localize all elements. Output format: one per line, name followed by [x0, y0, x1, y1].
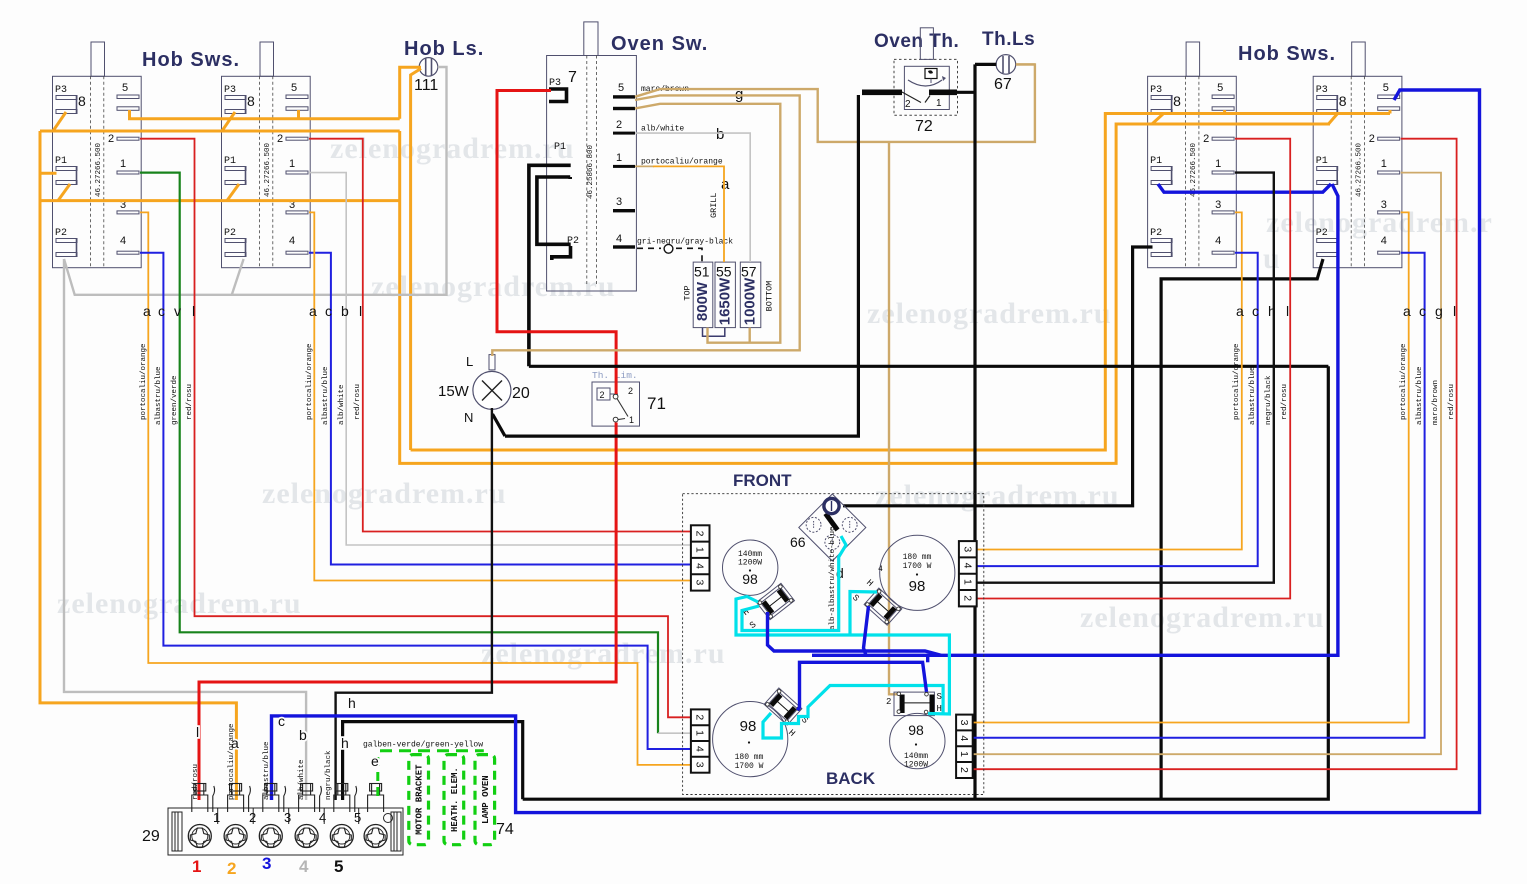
- wire tan lamp67 right link: [1016, 63, 1035, 65]
- wire black h2 terminal5 to neutral bus: [343, 722, 523, 800]
- svg-text:red/rosu: red/rosu: [1448, 384, 1456, 420]
- oven switch pin 3: [613, 196, 635, 212]
- wire blue pin4 block2: [309, 253, 692, 565]
- letters under block 3: [1236, 303, 1289, 319]
- svg-text:b: b: [299, 727, 307, 743]
- svg-text:Hob Sws.: Hob Sws.: [1238, 43, 1336, 65]
- wire black lamp20 N down to h: [336, 408, 492, 800]
- svg-text:2: 2: [958, 767, 970, 773]
- wire green pin1 block1: [140, 173, 658, 734]
- terminal strip right-top: [959, 541, 977, 606]
- svg-text:1200W: 1200W: [904, 761, 928, 770]
- svg-text:2: 2: [886, 697, 891, 707]
- wire red pin2 block2 to top strip: [309, 139, 692, 532]
- hob switch block 4: [1313, 42, 1402, 268]
- svg-text:4: 4: [616, 233, 622, 245]
- svg-text:red/rosu: red/rosu: [354, 384, 362, 420]
- svg-text:portocaliu/orange: portocaliu/orange: [306, 343, 314, 420]
- letters under block 4: [1403, 303, 1456, 319]
- svg-text:zelenogradrem.ru: zelenogradrem.ru: [330, 132, 575, 165]
- svg-text:S: S: [937, 692, 942, 702]
- wire red oven P3 through limiter to terminal 1: [497, 91, 616, 395]
- svg-text:1: 1: [616, 152, 622, 164]
- svg-text:57: 57: [741, 264, 757, 280]
- svg-text:7: 7: [568, 69, 577, 86]
- svg-text:maro/brown: maro/brown: [1432, 380, 1440, 425]
- svg-text:a: a: [1403, 303, 1411, 319]
- wire red pin2 block3 to strip: [977, 139, 1290, 599]
- green dashed link over boxes: [380, 749, 484, 752]
- svg-text:Oven Th.: Oven Th.: [874, 31, 959, 52]
- svg-text:3: 3: [694, 762, 706, 768]
- svg-text:1: 1: [694, 547, 706, 553]
- wire gray oven pin2 b to box 57: [635, 133, 750, 262]
- svg-text:GRILL: GRILL: [709, 192, 719, 218]
- svg-text:180 mm: 180 mm: [735, 753, 764, 762]
- svg-text:1700 W: 1700 W: [903, 562, 932, 571]
- svg-text:c: c: [278, 713, 285, 729]
- wire gray pin1 block2: [309, 173, 692, 545]
- power box 57 1000W BOTTOM: [740, 262, 774, 328]
- svg-text:albastru/blue: albastru/blue: [263, 741, 271, 800]
- wire orange lamp111 diagonal: [411, 69, 421, 451]
- svg-text:4: 4: [694, 746, 706, 752]
- svg-text:green/verde: green/verde: [171, 375, 179, 425]
- svg-text:1700 W: 1700 W: [735, 762, 764, 771]
- svg-text:2: 2: [628, 386, 633, 396]
- wire tan oven pin5 bottom to element boxes: [635, 104, 780, 343]
- wire blue pin4 block4 to strip: [973, 253, 1425, 738]
- oven thermostat 72: [894, 28, 958, 135]
- hob switch block 2: [222, 42, 311, 268]
- power box 55 1650W: [715, 262, 735, 328]
- wire tan element box57 drop: [749, 328, 751, 343]
- svg-text:L: L: [466, 354, 473, 369]
- svg-text:72: 72: [915, 118, 933, 135]
- svg-text:180 mm: 180 mm: [903, 553, 932, 562]
- svg-text:800W: 800W: [694, 281, 711, 321]
- svg-text:20: 20: [512, 385, 530, 402]
- svg-text:l: l: [196, 724, 199, 740]
- wire tan oven pin5 top to lamp 67 circuit: [635, 64, 1035, 141]
- wire blue pin4 block1: [140, 253, 692, 749]
- svg-text:alb/white: alb/white: [298, 759, 306, 800]
- wire orange P3 block4 diagonal: [1329, 113, 1339, 124]
- wire orange lamp111 upper run to right bus1: [411, 114, 1390, 451]
- svg-text:3: 3: [616, 196, 622, 208]
- wire black oven P1 bus to right: [529, 365, 1329, 368]
- wire black pin1 stub: [957, 91, 975, 94]
- svg-text:l: l: [1453, 303, 1456, 319]
- wire green-yellow e dashes: [376, 757, 379, 800]
- wire blue junction stub: [926, 655, 929, 662]
- wire gray lamp111 to P2 blocks 1-2: [64, 67, 447, 295]
- wire cyan inner TL to ignition: [742, 536, 846, 631]
- oven switch block 7 outline: [547, 22, 637, 291]
- wire orange lamp111 left upper: [400, 67, 421, 119]
- wire blue TR-S down: [864, 606, 869, 655]
- box MOTOR BRACKET: [409, 755, 429, 845]
- oven switch pin 4: [613, 233, 733, 249]
- svg-text:1: 1: [213, 810, 220, 825]
- svg-text:2: 2: [694, 531, 706, 537]
- svg-text:FRONT: FRONT: [733, 471, 792, 490]
- svg-text:3: 3: [961, 546, 973, 552]
- svg-text:BOTTOM: BOTTOM: [765, 281, 775, 312]
- wire gray P2 block2 diagonal: [232, 259, 244, 295]
- svg-text:111: 111: [414, 77, 438, 94]
- wire blue TL-S down: [768, 612, 942, 655]
- mechanical link dashes pin4 to box51: [637, 244, 702, 262]
- svg-text:N: N: [464, 410, 473, 425]
- hob switch block 3: [1148, 42, 1237, 268]
- svg-text:4: 4: [694, 563, 706, 569]
- thermostat contact bar pin1: [929, 90, 957, 96]
- svg-text:albastru/blue: albastru/blue: [1416, 366, 1424, 425]
- svg-text:Oven Sw.: Oven Sw.: [611, 33, 708, 55]
- wire red pin2 block1 to strip: [140, 139, 692, 718]
- svg-text:67: 67: [994, 76, 1012, 93]
- hotplate bottom-right 140mm 1200W: [890, 713, 945, 769]
- svg-text:b: b: [716, 126, 724, 143]
- svg-text:2: 2: [227, 859, 236, 878]
- svg-text:Th.Ls: Th.Ls: [982, 29, 1035, 50]
- hotplate bottom-left 180mm 1700W: [713, 702, 788, 777]
- wire blue P1 block4 down to hotplates: [812, 184, 1338, 655]
- svg-text:a: a: [1236, 303, 1244, 319]
- svg-text:e: e: [371, 753, 379, 769]
- svg-text:98: 98: [740, 718, 757, 735]
- svg-text:red/rosu: red/rosu: [186, 384, 194, 420]
- svg-text:h: h: [1268, 303, 1276, 319]
- terminal block 29 body: [168, 808, 403, 855]
- hob switch block 1: [53, 42, 142, 268]
- svg-text:red/rosu: red/rosu: [1281, 384, 1289, 420]
- wire black pin1 block3 to strip: [977, 173, 1274, 583]
- wire name labels block 4: [1400, 343, 1456, 425]
- wire orange P1 block1 diagonal: [58, 184, 70, 201]
- svg-text:66: 66: [790, 534, 806, 550]
- power box 51 800W TOP: [683, 262, 713, 328]
- wire orange pin3 block2: [309, 212, 692, 580]
- wire orange pin5 block4 drop: [1389, 110, 1392, 114]
- svg-text:h: h: [341, 735, 349, 751]
- svg-text:2: 2: [249, 810, 256, 825]
- svg-text:4: 4: [319, 810, 326, 825]
- svg-text:red/rosu: red/rosu: [192, 764, 200, 800]
- terminal colored numbers: [192, 854, 343, 878]
- svg-text:zelenogradrem.ru: zelenogradrem.ru: [1080, 601, 1325, 634]
- svg-text:alb/white: alb/white: [641, 125, 684, 134]
- svg-text:3: 3: [958, 720, 970, 726]
- letters under block 1: [143, 303, 195, 319]
- svg-text:l: l: [192, 303, 195, 319]
- oven switch pin 2: [613, 119, 684, 135]
- wire cyan TR-H drop: [850, 592, 877, 636]
- wire orange pin5 block3 drop: [1223, 110, 1226, 114]
- svg-text:g: g: [1435, 303, 1443, 319]
- wire name labels block 3: [1233, 343, 1289, 425]
- svg-text:BACK: BACK: [826, 769, 876, 788]
- wire blue pin5 block4 to terminal 3: [272, 90, 1480, 813]
- oven switch contact P3: [549, 78, 567, 102]
- oven switch contacts P1 P2: [529, 142, 579, 366]
- svg-text:1: 1: [958, 751, 970, 757]
- svg-text:h: h: [348, 695, 356, 711]
- wire black P2 block3 to ignition 66: [843, 247, 1153, 506]
- svg-text:1200W: 1200W: [738, 559, 762, 568]
- svg-text:1650W: 1650W: [716, 277, 733, 325]
- svg-text:portocaliu/orange: portocaliu/orange: [1233, 343, 1241, 420]
- svg-text:l: l: [359, 303, 362, 319]
- svg-text:Hob Sws.: Hob Sws.: [142, 49, 240, 71]
- svg-text:2: 2: [905, 99, 911, 110]
- thermostat contact bar pin2: [862, 90, 902, 96]
- svg-text:1: 1: [192, 857, 201, 876]
- svg-text:2: 2: [616, 119, 622, 131]
- svg-text:zelenogradrem.ru: zelenogradrem.ru: [867, 297, 1112, 330]
- svg-text:15W: 15W: [438, 383, 470, 400]
- svg-text:5: 5: [354, 810, 361, 825]
- svg-text:74: 74: [496, 821, 514, 838]
- wire name labels block 2: [306, 343, 362, 425]
- terminal strip right-bottom: [956, 715, 973, 778]
- wire blue BL-S and BR-S link: [798, 662, 927, 710]
- oven switch pin 1: [613, 152, 723, 168]
- wire orange P3 block3 diagonal: [1152, 114, 1163, 124]
- svg-text:a: a: [721, 176, 730, 193]
- wire orange pin3 block1: [140, 212, 692, 765]
- svg-text:LAMP OVEN: LAMP OVEN: [481, 775, 491, 824]
- wire orange pin3 block4 to strip: [973, 212, 1409, 722]
- svg-text:portocaliu/orange: portocaliu/orange: [228, 723, 236, 800]
- wire orange stub to P1 block1: [40, 172, 57, 175]
- svg-text:2: 2: [694, 714, 706, 720]
- svg-text:4: 4: [958, 735, 970, 741]
- svg-text:1: 1: [936, 98, 942, 109]
- svg-text:a: a: [309, 303, 317, 319]
- terminal screws: [188, 814, 392, 848]
- wire blue pin4 block3 to strip: [977, 253, 1258, 566]
- svg-text:c: c: [325, 303, 332, 319]
- svg-text:98: 98: [908, 722, 924, 738]
- svg-text:5: 5: [334, 857, 343, 876]
- svg-text:1: 1: [629, 415, 634, 425]
- wire red limiter to terminal 1: [199, 423, 616, 801]
- oven switch pin 5: [613, 82, 689, 110]
- wire gray stub into strip cell1: [658, 732, 692, 734]
- wire red pin2 block4 to strip: [973, 139, 1457, 770]
- svg-text:MOTOR BRACKET: MOTOR BRACKET: [415, 764, 425, 835]
- svg-text:b: b: [341, 303, 349, 319]
- svg-text:portocaliu/orange: portocaliu/orange: [1400, 343, 1408, 420]
- svg-text:portocaliu/orange: portocaliu/orange: [140, 343, 148, 420]
- wire blue P1 block3 to P1 block4: [1158, 184, 1331, 192]
- plate connector block top-right: [864, 588, 902, 625]
- plate connector block bottom-right: [894, 692, 935, 716]
- letters under block 2: [309, 303, 362, 319]
- wire gray P2 block1 down to terminal 4: [64, 259, 306, 800]
- terminal gap numbers: [213, 810, 361, 825]
- svg-text:zelenogradrem.ru: zelenogradrem.ru: [371, 270, 616, 303]
- terminal wire name labels: [192, 723, 333, 800]
- box LAMP OVEN: [475, 755, 495, 845]
- wire orange bus pin5 blocks 1-2 to lamp 111: [130, 110, 400, 119]
- wire orange pin3 block3 to strip: [977, 212, 1242, 549]
- svg-text:4: 4: [961, 563, 973, 569]
- wire orange P3 block1 diagonal: [53, 112, 66, 131]
- svg-text:negru/black: negru/black: [325, 750, 333, 800]
- svg-text:3: 3: [284, 810, 291, 825]
- hotplate top-left 140mm 1200W: [723, 540, 778, 595]
- oven lamp 20: [438, 354, 530, 425]
- svg-text:98: 98: [742, 571, 758, 587]
- svg-text:2: 2: [961, 595, 973, 601]
- svg-text:albastru/blue: albastru/blue: [155, 366, 163, 425]
- svg-text:55: 55: [716, 264, 732, 280]
- wire orange P3 block2 diagonal: [222, 112, 235, 131]
- svg-text:P1: P1: [554, 142, 566, 153]
- svg-text:4: 4: [878, 565, 883, 574]
- terminal letters l a c b h h e: [196, 695, 379, 769]
- svg-text:l: l: [1286, 303, 1289, 319]
- svg-text:negru/black: negru/black: [1265, 375, 1273, 425]
- wire tan branch to hotplate BR block: [889, 142, 898, 694]
- wire black thermostat pin1 down: [973, 64, 976, 799]
- svg-text:c: c: [1419, 303, 1426, 319]
- svg-text:3: 3: [262, 854, 271, 873]
- wire black lamp67 left link: [975, 63, 996, 66]
- terminal upper contacts: [192, 784, 384, 813]
- wire black P2 block4 to neutral bus: [1161, 259, 1323, 799]
- wire tan oven pin5 mid to lamp 20 L: [492, 95, 799, 356]
- wire cyan outer loop TL-H to BR-H: [736, 597, 949, 715]
- svg-text:c: c: [1252, 303, 1259, 319]
- terminal strip left-top: [691, 525, 710, 590]
- wire black thermostat pin2 down: [505, 95, 858, 436]
- svg-text:1: 1: [961, 579, 973, 585]
- svg-text:albastru/blue: albastru/blue: [1249, 366, 1257, 425]
- wire orange pin5 block2 drop: [297, 110, 300, 119]
- wire black lamp20 N diagonal: [493, 414, 506, 436]
- svg-text:29: 29: [142, 828, 160, 845]
- svg-text:71: 71: [647, 394, 666, 413]
- lamp Hob Ls 111: [414, 58, 438, 94]
- lamp Th.Ls 67: [994, 55, 1016, 93]
- svg-text:u: u: [1263, 242, 1281, 275]
- svg-text:zelenogradrem.ru: zelenogradrem.ru: [262, 477, 507, 510]
- svg-text:v: v: [174, 303, 181, 319]
- svg-text:galben-verde/green-yellow: galben-verde/green-yellow: [363, 741, 483, 750]
- svg-text:Hob Ls.: Hob Ls.: [404, 38, 484, 60]
- plate connector block bottom-left: [764, 688, 802, 725]
- terminal strip left-bottom: [691, 709, 710, 772]
- wire tan pin1 block4 to strip: [973, 173, 1441, 755]
- svg-text:1000W: 1000W: [742, 277, 759, 325]
- link 800W-1650W bottoms: [703, 328, 725, 337]
- svg-text:1: 1: [694, 730, 706, 736]
- svg-text:2: 2: [600, 390, 605, 400]
- wire orange bus P1 blocks 1-2: [40, 199, 399, 202]
- svg-text:alb/white: alb/white: [338, 384, 346, 425]
- wire name labels block 1: [140, 343, 194, 425]
- wire black neutral bottom bus: [523, 366, 1329, 799]
- plate connector block top-left: [757, 583, 795, 619]
- svg-text:albastru/blue: albastru/blue: [322, 366, 330, 425]
- wire cyan BL wrap to BR-H: [763, 686, 943, 739]
- wire orange P1 block2 diagonal: [227, 184, 239, 201]
- svg-text:HEATH. ELEM.: HEATH. ELEM.: [450, 767, 460, 832]
- svg-text:98: 98: [909, 578, 926, 595]
- thermal limiter 71: [592, 370, 666, 426]
- svg-text:zelenogradrem.ru: zelenogradrem.ru: [481, 637, 726, 670]
- hotplate top-right 180mm 1700W: [878, 535, 955, 610]
- wire orange bus P3 blocks 1-2: [40, 130, 400, 133]
- svg-text:TOP: TOP: [683, 285, 693, 300]
- box HEATH. ELEM.: [444, 755, 464, 845]
- svg-text:gri-negru/gray-black: gri-negru/gray-black: [637, 238, 733, 247]
- wire orange left vertical to terminal 2: [40, 131, 236, 800]
- wire orange lamp111 lower run to right bus2: [400, 124, 1330, 463]
- svg-text:c: c: [158, 303, 165, 319]
- wire orange oven pin1 a to box 55: [653, 166, 724, 262]
- svg-text:portocaliu/orange: portocaliu/orange: [641, 158, 723, 167]
- svg-text:46.25866.800: 46.25866.800: [587, 144, 595, 199]
- svg-text:a: a: [143, 303, 151, 319]
- svg-text:5: 5: [618, 82, 624, 94]
- svg-text:3: 3: [694, 579, 706, 585]
- svg-text:4: 4: [299, 857, 309, 876]
- svg-text:51: 51: [694, 264, 710, 280]
- ignition switch 66: [790, 494, 866, 561]
- wire tan oven pin1 stub: [635, 165, 654, 167]
- hotplate zone dashed box: [683, 494, 984, 795]
